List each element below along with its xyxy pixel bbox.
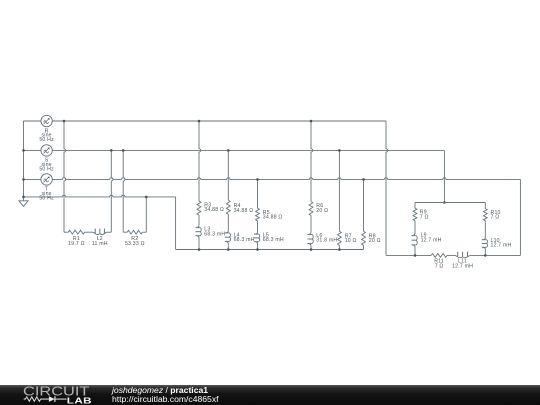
junction rail-R5: [256, 248, 259, 251]
svg-text:50 Hz: 50 Hz: [39, 167, 54, 173]
wire branch2 bottom right: [142, 231, 146, 233]
wire branch2 right vertical: [145, 197, 147, 232]
junction rail-R3: [198, 248, 201, 251]
ground: [23, 197, 25, 201]
wire left bus: [23, 121, 25, 197]
svg-text:34.88 Ω: 34.88 Ω: [204, 207, 224, 213]
resistor R11: [431, 254, 447, 258]
resistor R7: [338, 231, 342, 245]
junction rail-R4: [227, 248, 230, 251]
resistor R8: [362, 231, 366, 245]
logo resistor: [24, 397, 49, 401]
junction S-R7: [338, 149, 341, 152]
svg-text:31.8 mH: 31.8 mH: [316, 238, 337, 244]
wire R3-L3: [198, 215, 200, 225]
svg-text:34.88 Ω: 34.88 Ω: [234, 208, 254, 214]
junction top2-S: [443, 201, 446, 204]
wire branch1 bottom left: [64, 231, 68, 233]
junction rail-R7: [338, 248, 341, 251]
svg-text:12.7 mH: 12.7 mH: [491, 243, 512, 249]
logo text LAB: [67, 397, 92, 405]
wire R8-rail: [363, 245, 365, 249]
wire feeder from S: [443, 150, 445, 202]
wire branch R6 top: [311, 121, 313, 202]
wire L9-rail: [414, 248, 416, 256]
wire feeder from R: [386, 121, 388, 255]
wire branch1 left vertical: [64, 121, 66, 232]
svg-text:7 Ω: 7 Ω: [435, 263, 444, 269]
inductor L4: [227, 231, 229, 233]
wire phase R horizontal: [24, 120, 41, 122]
wire branch2 left vertical: [123, 150, 125, 232]
wire branch1 bottom right: [107, 231, 111, 233]
wire sub bottom rail left: [386, 254, 431, 256]
wire sub top rail: [415, 202, 485, 204]
svg-text:68.3 mH: 68.3 mH: [234, 237, 255, 243]
svg-text:20 Ω: 20 Ω: [316, 208, 328, 214]
resistor R1: [68, 230, 84, 234]
resistor R5: [256, 208, 260, 221]
svg-text:68.3 mH: 68.3 mH: [263, 237, 284, 243]
junction neutral-x146: [145, 196, 148, 199]
inductor L6: [309, 232, 311, 234]
wire branch1 right vertical: [111, 150, 113, 232]
wire branch R5 top: [257, 179, 259, 208]
wire L4-rail: [227, 244, 229, 250]
junction neutral-bus: [22, 196, 25, 199]
junction S-R4: [227, 149, 230, 152]
resistor R6: [309, 202, 313, 216]
inductor L5: [256, 232, 258, 234]
svg-text:19.7 Ω: 19.7 Ω: [68, 241, 85, 247]
junction bot2-L9: [414, 254, 417, 257]
logo text CIRCUIT: [23, 385, 89, 399]
wire branch R3 top: [199, 121, 201, 201]
svg-text:12.7 mH: 12.7 mH: [421, 237, 442, 243]
wire L5-rail: [257, 244, 259, 250]
inductor L2: [93, 232, 95, 234]
junction T-R5: [256, 178, 259, 181]
inductor L3: [197, 225, 199, 227]
svg-text:20 Ω: 20 Ω: [369, 238, 381, 244]
wire branch R10 top: [484, 203, 486, 209]
wire R7-rail: [338, 245, 340, 249]
svg-text:12.7 mH: 12.7 mH: [452, 263, 473, 269]
junction bot2-L10: [484, 254, 487, 257]
svg-text:7 Ω: 7 Ω: [491, 215, 500, 221]
junction S-bus: [22, 149, 25, 152]
wire bottom rail: [176, 249, 364, 251]
resistor R10: [483, 209, 487, 221]
junction S-x123: [122, 149, 125, 152]
wire L6-rail: [310, 246, 312, 250]
wire R10-L10: [484, 221, 486, 238]
wire R9-L9: [414, 221, 416, 233]
svg-text:10 Ω: 10 Ω: [345, 238, 357, 244]
wire R1-L2: [85, 231, 93, 233]
logo diode: [49, 396, 55, 402]
resistor R9: [413, 208, 417, 221]
wire feeder from T: [519, 179, 521, 255]
svg-text:53.33 Ω: 53.33 Ω: [125, 241, 145, 247]
junction T-R8: [362, 178, 365, 181]
voltage source S: [41, 145, 52, 156]
wire branch R8 top: [363, 179, 365, 231]
resistor R3: [197, 201, 201, 215]
wire branch R4 top: [227, 150, 229, 200]
wire phase T horizontal: [24, 178, 41, 180]
wire neutral horizontal: [24, 195, 176, 197]
junction R-R3: [198, 120, 201, 123]
junction R-R6: [310, 120, 313, 123]
wire R6-L6: [310, 216, 312, 233]
voltage source T: [41, 174, 52, 185]
wire R11-L11: [447, 254, 455, 256]
wire phase S horizontal: [24, 149, 41, 151]
wire branch R9 top: [414, 203, 416, 209]
junction rail-R6: [310, 248, 313, 251]
wire L10-rail: [484, 250, 486, 256]
resistor R2: [127, 230, 142, 234]
wire R5-L5: [257, 221, 259, 232]
svg-text:7 Ω: 7 Ω: [420, 214, 429, 220]
svg-text:68.3 mH: 68.3 mH: [204, 231, 225, 237]
wire sub bottom rail right: [470, 254, 520, 256]
junction R-x64: [63, 120, 66, 123]
voltage source R: [41, 115, 52, 126]
svg-text:34.88 Ω: 34.88 Ω: [263, 215, 283, 221]
wire branch2 bottom left: [123, 231, 127, 233]
svg-text:50 Hz: 50 Hz: [39, 196, 54, 202]
junction S-x111: [110, 149, 113, 152]
resistor R4: [226, 200, 230, 214]
wire L3-rail: [198, 238, 200, 250]
inductor L9: [413, 233, 415, 235]
svg-text:LAB: LAB: [67, 397, 92, 405]
wire neutral vertical drop: [175, 197, 177, 250]
wire R4-L4: [227, 214, 229, 230]
svg-text:11 mH: 11 mH: [92, 241, 108, 247]
inductor L11: [455, 255, 458, 257]
wire branch R7 top: [338, 150, 340, 231]
inductor L10: [484, 238, 486, 240]
svg-text:50 Hz: 50 Hz: [39, 137, 54, 143]
junction T-bus: [22, 178, 25, 181]
